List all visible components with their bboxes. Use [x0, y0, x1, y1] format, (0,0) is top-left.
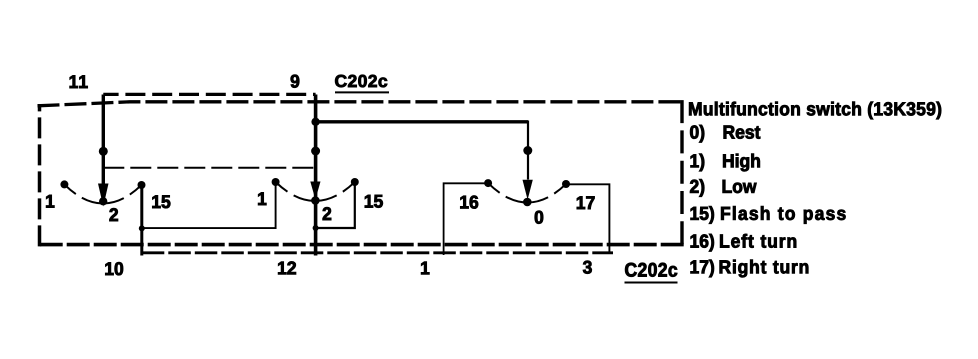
legend title: Multifunction switch (13K359) — [689, 102, 941, 120]
arrowhead of SW1 pole — [98, 184, 109, 207]
SW1 contact 1 label — [46, 195, 54, 208]
legend entry 1) High — [691, 154, 705, 172]
junction dot: branch to SW3 — [311, 118, 319, 126]
junction dot on pin-9 wire — [311, 147, 320, 156]
arrowhead of SW3 pole — [523, 180, 533, 200]
wire: link SW1 contact 15 to SW2 contact 1 — [142, 182, 276, 228]
SW2 position 2 label — [323, 207, 331, 220]
switch SW3 contact 17 — [562, 180, 570, 188]
inner dashed link between SW1 and SW2 pole wires — [103, 167, 315, 169]
junction dot on pin-10 wire — [139, 225, 145, 231]
junction dot where SW2 contact 15 wire joins pin-12 wire — [313, 225, 319, 231]
switch SW3 wiper arc — [488, 183, 566, 202]
connector C202c top line (pins 11, 9) — [103, 93, 315, 96]
pin 3 label — [583, 261, 592, 274]
underline of bottom C202c label — [625, 282, 678, 284]
SW2 contact 15 label — [365, 195, 383, 208]
switch SW2 wiper arc — [276, 182, 355, 201]
underline of top C202c label — [335, 91, 389, 93]
connector C202c bottom label — [625, 263, 677, 277]
switch SW2 contact 15 — [351, 178, 359, 186]
switch enclosure dashed box: left border — [38, 104, 42, 246]
connector C202c top label — [335, 75, 387, 87]
node at SW3 arc bottom (position 0) — [523, 198, 532, 207]
junction dot on SW3 pole wire — [523, 146, 532, 155]
switch enclosure dashed box: top border — [38, 102, 684, 106]
wire: SW1 contact 15 down to pin 10 — [140, 185, 143, 256]
legend entry 2) Low — [690, 179, 704, 197]
SW1 position 2 label — [110, 208, 118, 221]
wire: pin 9 down through SW2 pole to pin 12 — [314, 95, 318, 256]
switch enclosure dashed box: right border — [680, 100, 683, 245]
SW3 contact 16 label — [460, 196, 478, 209]
wire: SW3 contact 17 down to pin 3 — [566, 184, 609, 253]
SW2 contact 1 label — [258, 192, 266, 205]
arrowhead of SW2 pole — [310, 182, 320, 200]
pin 12 label — [278, 262, 296, 275]
wire: drop to SW3 pole — [527, 121, 529, 180]
legend entry 0) Rest — [690, 125, 704, 142]
legend entry 16) Left turn — [691, 234, 714, 252]
wire: SW2 contact 15 to pin-12 wire — [316, 182, 355, 228]
node at SW1 arc bottom (position 2) — [99, 197, 107, 205]
connector C202c bottom line (pins 10, 12, 1, 3) — [142, 251, 613, 254]
switch SW3 contact 16 — [484, 179, 492, 187]
switch SW2 contact 1 — [272, 178, 280, 186]
SW3 position 0 label — [535, 211, 543, 224]
switch enclosure dashed box: bottom border — [37, 243, 683, 247]
wire: SW3 contact 16 down to pin 1 — [444, 183, 489, 255]
legend entry 15) Flash to pass — [691, 206, 714, 224]
pin 11 label — [70, 75, 88, 88]
wire: branch from pin-9 wire toward SW3 pole — [316, 120, 528, 123]
switch SW1 contact 15 — [138, 181, 146, 189]
switch SW1 contact 1 — [60, 180, 68, 188]
switch SW1 wiper arc — [64, 184, 141, 203]
wire: pin 11 down to switch SW1 pole — [102, 95, 105, 185]
junction dot on pin-11 wire — [99, 147, 108, 156]
pin 1 label — [421, 262, 429, 275]
legend entry 17) Right turn — [691, 260, 714, 278]
SW1 contact 15 label — [152, 195, 170, 208]
SW3 contact 17 label — [577, 196, 595, 209]
pin 9 label — [291, 75, 300, 88]
node at SW2 arc bottom (position 2) — [311, 196, 320, 205]
pin 10 label — [105, 262, 123, 275]
